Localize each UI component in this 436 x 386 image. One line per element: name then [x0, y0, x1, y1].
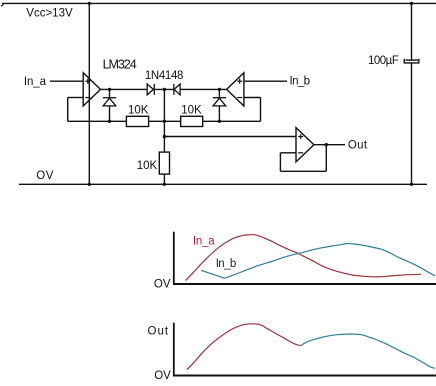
svg-text:Out: Out	[348, 139, 368, 151]
svg-text:OV: OV	[154, 279, 171, 291]
svg-text:In_a: In_a	[193, 236, 215, 248]
svg-text:LM324: LM324	[103, 58, 137, 72]
svg-text:Out: Out	[148, 325, 170, 337]
svg-text:1N4148: 1N4148	[145, 70, 183, 82]
svg-text:10K: 10K	[181, 105, 202, 117]
svg-text:100µF: 100µF	[368, 55, 399, 67]
svg-text:In_b: In_b	[290, 75, 310, 87]
svg-text:In_b: In_b	[216, 258, 236, 270]
svg-text:Vcc>13V: Vcc>13V	[26, 8, 73, 20]
svg-text:In_a: In_a	[24, 76, 47, 88]
svg-text:OV: OV	[36, 170, 54, 182]
svg-text:OV: OV	[154, 370, 171, 382]
svg-text:10K: 10K	[128, 105, 149, 117]
svg-text:10K: 10K	[137, 160, 158, 172]
